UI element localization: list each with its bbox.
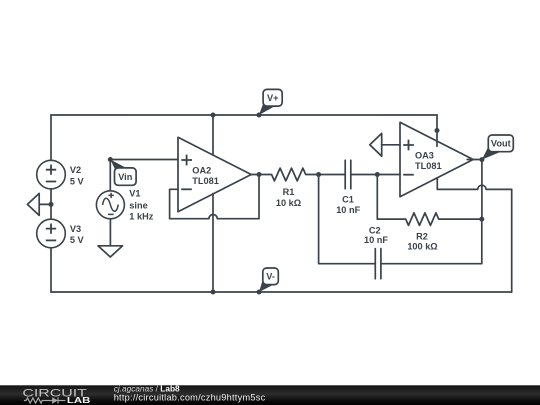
wire V2 to V3 (50, 189, 52, 219)
op-amp OA3 plus input symbol (403, 140, 414, 151)
node dot top rail at V+ flag (257, 113, 262, 118)
svg-text:V-: V- (266, 272, 275, 282)
label V2 value (70, 165, 85, 186)
svg-text:C1: C1 (342, 195, 354, 205)
flag Vin (110, 160, 136, 186)
ground GND2 (below V1, pointing down) (98, 246, 123, 257)
voltage source V1 (sine) (96, 191, 124, 219)
svg-text:TL081: TL081 (192, 176, 219, 186)
svg-text:Vin: Vin (118, 172, 133, 182)
svg-text:LAB: LAB (67, 396, 91, 405)
svg-text:sine: sine (129, 200, 147, 210)
node dot R1/C1 junction (node A) (316, 172, 321, 177)
wire OA2 V+ pin (212, 115, 214, 155)
label OA2 (192, 166, 219, 187)
wire bottom V- rail (51, 291, 512, 293)
op-amp OA3 triangle (400, 122, 473, 196)
voltage source V2 (37, 160, 66, 189)
wire OA3 apex dash (467, 159, 471, 161)
wire OA3 V+ pin (436, 115, 438, 146)
svg-text:100 kΩ: 100 kΩ (407, 242, 437, 252)
svg-text:R2: R2 (416, 232, 428, 242)
label C2 value (364, 225, 388, 245)
node dot bottom rail at OA2 V- (211, 290, 216, 295)
svg-text:5 V: 5 V (70, 177, 85, 187)
svg-text:5 V: 5 V (70, 235, 85, 245)
wire OA3 V- pin with hop over output wire (437, 178, 511, 190)
wire Vin node to OA2 + input (110, 159, 178, 161)
op-amp OA3 minus input symbol (403, 174, 414, 176)
ground GND1 (left, pointing left) (27, 193, 39, 215)
flag V- (259, 268, 278, 292)
node dot C1/OA3 minus junction (node B) (375, 172, 380, 177)
svg-text:OA2: OA2 (192, 166, 211, 176)
label R2 value (407, 232, 437, 252)
wire R1 to C1 (319, 174, 346, 176)
svg-text:10 nF: 10 nF (336, 205, 360, 215)
op-amp OA2 minus input symbol (181, 188, 192, 190)
label R1 value (276, 187, 301, 208)
capacitor C1 (345, 160, 351, 189)
wire OA2 V- pin (212, 194, 214, 292)
node dot bottom rail at V- flag (257, 290, 262, 295)
wire output down to feedback node (481, 160, 483, 220)
wire V1 top to Vin node (109, 160, 111, 191)
svg-text:10 nF: 10 nF (364, 235, 388, 245)
node dot OA3 output (Vout) (479, 157, 484, 162)
label V3 value (70, 224, 85, 245)
wire OA3 output stub (473, 159, 482, 161)
flag Vout (482, 135, 513, 160)
ground GND3 (at OA3 + input, pointing left) (370, 133, 382, 156)
op-amp OA2 plus input symbol (181, 155, 192, 166)
label OA3 (415, 151, 442, 171)
wire V3 to bottom rail (50, 248, 52, 292)
wire top V+ rail (51, 114, 437, 116)
wire ground stub at V2/V3 junction (39, 203, 51, 205)
wire OA2 output stub (251, 174, 259, 176)
svg-text:V1: V1 (129, 189, 140, 199)
node dot OA3 V+ pin (435, 128, 440, 133)
node dot R2/C2/output junction (479, 217, 484, 222)
wire C2 to feedback node (381, 219, 482, 264)
svg-text:10 kΩ: 10 kΩ (276, 198, 301, 208)
label V1 value (129, 189, 153, 222)
node dot Vin (108, 157, 113, 162)
svg-text:http://circuitlab.com/czhu9htt: http://circuitlab.com/czhu9httym5sc (114, 393, 266, 403)
svg-text:OA3: OA3 (415, 151, 434, 161)
wire left rail V2 top to top rail (50, 115, 52, 160)
svg-text:V+: V+ (267, 93, 279, 103)
wire V1 bottom to ground (109, 219, 111, 246)
node dot V2/V3 ground junction (49, 202, 54, 207)
node dot OA2 output (257, 172, 262, 177)
wire C1 to OA3 minus input (351, 174, 400, 176)
svg-text:1 kHz: 1 kHz (129, 211, 153, 221)
svg-text:R1: R1 (283, 187, 295, 197)
resistor R1 (259, 168, 319, 181)
svg-text:Vout: Vout (491, 139, 511, 149)
wire right riser to OA3 V- (511, 189, 513, 292)
flag V+ (259, 89, 282, 115)
voltage source V3 (37, 219, 66, 248)
label C1 value (336, 195, 360, 215)
wire OA3 ground stub (382, 144, 400, 146)
capacitor C2 (375, 249, 381, 279)
op-amp OA2 triangle (178, 137, 251, 211)
svg-text:V2: V2 (70, 165, 81, 175)
svg-text:TL081: TL081 (415, 161, 442, 171)
svg-text:C2: C2 (369, 225, 381, 235)
wire OA2 feedback (minus input to output) with hop (170, 175, 259, 219)
wire node B down to R2 (377, 175, 405, 220)
CircuitLab logo resistor and diode (24, 397, 66, 403)
node dot top rail at OA2 V+ (211, 113, 216, 118)
wire node A down to C2 (319, 175, 376, 264)
resistor R2 (406, 213, 482, 226)
svg-text:V3: V3 (70, 224, 81, 234)
